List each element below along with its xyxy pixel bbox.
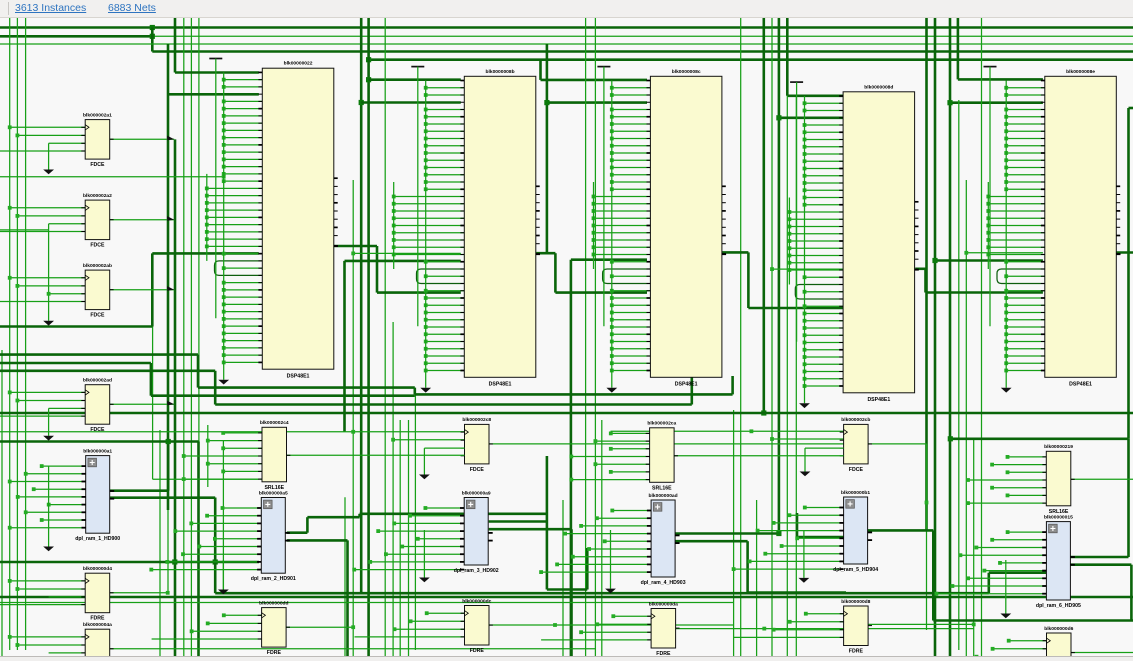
input wires xyxy=(10,580,86,582)
fan-in wires blk0000008d xyxy=(805,102,844,104)
right pin stubs xyxy=(536,185,540,187)
svg-text:blk000002ca: blk000002ca xyxy=(647,421,676,427)
vertical bus A xyxy=(611,81,613,388)
left pin stubs xyxy=(258,71,262,73)
pin stubs xyxy=(840,613,844,615)
pin stubs xyxy=(1042,531,1046,533)
wire net vertical xyxy=(786,96,788,656)
FDRE instance blk0000004a xyxy=(0,622,114,661)
input wires xyxy=(10,636,86,638)
input wires xyxy=(224,614,262,616)
DSP48E1 instance blk0000008d xyxy=(788,82,919,408)
dpl_ram instance blk000000ad (dpl_ram_4_HD903) xyxy=(539,493,686,586)
block body blk000002ad xyxy=(85,385,110,425)
input wires xyxy=(223,432,262,434)
wire bus segment xyxy=(933,619,1133,622)
svg-text:dpl_ram_6_HD905: dpl_ram_6_HD905 xyxy=(1036,603,1081,609)
junction xyxy=(770,437,774,441)
wire bus segment xyxy=(539,60,542,80)
clock marker xyxy=(85,275,89,280)
wire pcout cascade xyxy=(915,267,925,270)
input wires xyxy=(10,277,86,279)
svg-text:DSP48E1: DSP48E1 xyxy=(489,382,512,388)
wire bus segment xyxy=(0,440,199,443)
svg-text:blk000002cb: blk000002cb xyxy=(841,417,870,423)
output wire xyxy=(287,454,465,456)
wire net vertical xyxy=(414,389,416,651)
svg-text:blk000000d4: blk000000d4 xyxy=(83,566,112,572)
wire net vertical xyxy=(399,420,401,656)
vertical bus A xyxy=(1005,81,1007,388)
wire net vertical xyxy=(159,430,161,656)
wire net segment xyxy=(772,438,844,440)
wire bus segment xyxy=(415,393,733,396)
wire bus segment xyxy=(361,101,461,104)
wire bus segment xyxy=(198,386,415,389)
wire bus segment xyxy=(796,513,799,537)
hierarchy icon xyxy=(1049,524,1058,533)
pin stubs xyxy=(1042,456,1046,458)
block body blk0000008e xyxy=(1045,76,1117,377)
svg-text:blk000000a1: blk000000a1 xyxy=(83,448,112,454)
block body blk000000d4 xyxy=(85,573,110,613)
svg-text:blk000000a5: blk000000a5 xyxy=(259,490,288,496)
vertical bus B xyxy=(393,182,395,269)
wire pcout cascade xyxy=(722,251,748,254)
DSP48E1 instance blk00000022 xyxy=(205,59,338,385)
wire bus segment xyxy=(369,78,461,81)
block body blk0000004a xyxy=(85,629,110,661)
junction xyxy=(964,251,968,255)
block body blk000002c4 xyxy=(262,427,287,482)
FDCE instance blk000000d6 xyxy=(937,626,1075,661)
fan-in wires blk0000008b xyxy=(426,87,465,89)
wire net segment xyxy=(152,35,1133,37)
block body blk000000d6 xyxy=(1047,633,1072,661)
svg-text:SRL16E: SRL16E xyxy=(652,485,672,491)
svg-text:blk000000dc: blk000000dc xyxy=(462,598,491,604)
junction xyxy=(351,252,355,256)
junction xyxy=(150,25,155,30)
block body blk00000015 xyxy=(1046,522,1070,600)
vertical bus B xyxy=(788,198,790,285)
wire pcout cascade xyxy=(1117,251,1133,254)
svg-text:FDCE: FDCE xyxy=(90,313,105,319)
svg-text:blk000000a9: blk000000a9 xyxy=(462,490,491,496)
tie-off T xyxy=(209,58,222,60)
wire net vertical xyxy=(795,95,797,656)
left pin stubs xyxy=(647,80,651,82)
wire net segment xyxy=(675,628,974,630)
wire net vertical xyxy=(167,510,169,593)
output wire xyxy=(1071,478,1133,480)
block body blk00000219 xyxy=(1046,451,1071,506)
wire net vertical xyxy=(16,18,18,650)
FDCE instance blk000002ad xyxy=(0,378,174,441)
input wires xyxy=(806,613,844,615)
wire bus vertical xyxy=(934,18,937,656)
input wires xyxy=(1008,531,1047,533)
wire net vertical xyxy=(392,322,394,656)
wire bus segment xyxy=(215,403,692,406)
clock marker xyxy=(85,205,89,210)
svg-text:FDRE: FDRE xyxy=(90,616,105,622)
svg-text:blk000000da: blk000000da xyxy=(649,601,678,607)
junction xyxy=(351,625,355,629)
wire net vertical xyxy=(601,420,603,656)
dpl_ram instance blk00000015 (dpl_ram_6_HD905) xyxy=(935,514,1082,609)
svg-text:SRL16E: SRL16E xyxy=(1049,509,1069,515)
wire bus segment xyxy=(987,573,990,594)
wire net segment xyxy=(867,623,974,625)
output wire xyxy=(110,138,175,140)
wire net vertical xyxy=(408,420,410,656)
input wires xyxy=(805,507,844,509)
left pin stubs xyxy=(1041,80,1045,82)
wire net vertical xyxy=(733,410,735,656)
wire bus segment xyxy=(152,50,1133,53)
svg-text:FDCE: FDCE xyxy=(849,467,864,473)
svg-text:FDRE: FDRE xyxy=(470,648,485,654)
wire net vertical xyxy=(207,425,209,487)
tie-off T xyxy=(411,66,424,68)
wire bus vertical xyxy=(762,18,765,413)
input wires xyxy=(611,432,650,434)
input wires xyxy=(1008,456,1047,458)
wire bus segment xyxy=(1069,563,1131,566)
junction xyxy=(213,559,218,564)
wire bus vertical xyxy=(367,18,370,656)
wire net segment xyxy=(772,268,845,270)
input wires xyxy=(1009,640,1047,642)
dpl_ram instance blk000000a9 (dpl_ram_3_HD902) xyxy=(352,490,499,574)
svg-text:FDCE: FDCE xyxy=(90,243,105,249)
fan-in wires blk00000022 xyxy=(224,79,263,81)
hierarchy icon xyxy=(466,500,475,509)
clock marker xyxy=(85,634,89,639)
svg-text:dpl_ram_5_HD904: dpl_ram_5_HD904 xyxy=(833,567,878,573)
wire net vertical xyxy=(198,18,200,656)
pin stubs xyxy=(81,126,85,128)
clock marker xyxy=(1047,638,1051,643)
wire bus segment xyxy=(369,58,1133,61)
pin stubs xyxy=(81,277,85,279)
wire bus segment xyxy=(779,117,845,120)
svg-text:blk000002ab: blk000002ab xyxy=(83,263,112,269)
junction xyxy=(351,430,355,434)
FDRE instance blk000000dd xyxy=(152,600,290,656)
wire pcout cascade xyxy=(334,245,377,248)
right pin stubs xyxy=(722,185,726,187)
wire bus segment xyxy=(786,18,789,96)
svg-text:blk0000008c: blk0000008c xyxy=(672,69,701,75)
ground arrow xyxy=(1001,388,1012,393)
block body blk000000da xyxy=(651,609,676,649)
DSP48E1 instance blk0000008c xyxy=(592,67,727,393)
wire net segment xyxy=(0,229,49,231)
hierarchy icon xyxy=(846,500,855,509)
wire pcout cascade xyxy=(536,252,555,255)
wire net vertical xyxy=(384,18,386,656)
wire net vertical xyxy=(965,180,967,656)
wire net segment xyxy=(0,431,465,433)
wire net segment xyxy=(110,592,168,594)
SRL16E instance blk000002c4 xyxy=(182,420,465,491)
ground arrow xyxy=(610,530,612,589)
block body blk000002a2 xyxy=(85,200,110,240)
block body blk000000a1 xyxy=(86,456,110,534)
left pin stubs xyxy=(460,80,464,82)
svg-text:FDCE: FDCE xyxy=(90,162,105,168)
wire net segment xyxy=(0,176,224,178)
block body blk000002ca xyxy=(650,428,675,483)
junction xyxy=(366,57,371,62)
wire bus segment xyxy=(0,35,152,38)
svg-text:blk000002ad: blk000002ad xyxy=(83,378,112,384)
wire net segment xyxy=(966,252,1043,254)
clock marker xyxy=(651,614,655,619)
wire net vertical xyxy=(352,180,354,656)
junction xyxy=(391,438,395,442)
block body blk000002cb xyxy=(844,424,869,464)
svg-text:blk000000d8: blk000000d8 xyxy=(841,599,870,605)
tie-off T xyxy=(597,66,610,68)
right pin stubs xyxy=(334,177,338,179)
svg-text:FDCE: FDCE xyxy=(90,427,105,433)
wire net vertical xyxy=(594,18,596,656)
wire net segment xyxy=(0,602,734,604)
junction xyxy=(359,100,364,105)
wire bus segment xyxy=(110,489,168,492)
clock marker xyxy=(844,611,848,616)
wire net segment xyxy=(611,430,844,432)
wire net vertical xyxy=(926,444,928,630)
junction xyxy=(770,267,774,271)
wire net vertical xyxy=(981,18,983,656)
svg-text:blk0000008b: blk0000008b xyxy=(486,69,515,75)
wire bus segment xyxy=(0,561,259,564)
wire bus segment xyxy=(546,44,549,253)
junction xyxy=(932,258,937,263)
wire bus segment xyxy=(675,532,779,535)
wire bus segment xyxy=(174,18,177,73)
scrollbar strip xyxy=(0,656,1133,661)
wire net segment xyxy=(393,439,465,441)
wire net vertical xyxy=(344,497,346,656)
clock marker xyxy=(262,613,266,618)
vertical bus A xyxy=(223,72,225,379)
wire bus vertical xyxy=(949,18,952,656)
wire net segment xyxy=(489,624,734,626)
svg-text:blk000000b1: blk000000b1 xyxy=(841,490,870,496)
svg-text:blk0000004a: blk0000004a xyxy=(83,622,112,628)
wire bus segment xyxy=(151,28,154,52)
hierarchy icon xyxy=(88,458,97,467)
wire net segment xyxy=(0,43,1133,45)
hierarchy icon xyxy=(264,500,273,509)
wire bus vertical xyxy=(214,562,217,593)
dpl_ram instance blk000000a5 (dpl_ram_2_HD901) xyxy=(149,490,296,582)
output wire xyxy=(110,219,175,221)
pin stubs xyxy=(646,432,650,434)
svg-text:blk000000dd: blk000000dd xyxy=(259,600,288,606)
input wires xyxy=(223,507,262,509)
wire net vertical xyxy=(562,500,564,656)
pin stubs xyxy=(461,612,465,614)
pin stubs xyxy=(460,507,464,509)
svg-text:blk00000219: blk00000219 xyxy=(1044,444,1073,450)
svg-text:blk000000ad: blk000000ad xyxy=(649,493,678,499)
ground arrow xyxy=(420,388,431,393)
wire bus segment xyxy=(0,596,1133,599)
wire bus vertical xyxy=(174,139,177,656)
wire bus segment xyxy=(489,528,572,531)
ground arrow xyxy=(222,560,224,590)
wire bus vertical xyxy=(214,498,217,563)
svg-text:DSP48E1: DSP48E1 xyxy=(287,373,310,379)
svg-text:dpl_ram_1_HD900: dpl_ram_1_HD900 xyxy=(75,536,120,542)
svg-text:FDRE: FDRE xyxy=(849,649,864,655)
wire net segment xyxy=(287,626,354,628)
input wires xyxy=(425,507,464,509)
pin stubs xyxy=(81,391,85,393)
wire net vertical xyxy=(771,18,773,656)
block body blk000000dd xyxy=(262,608,287,648)
junction xyxy=(972,623,976,627)
input wires xyxy=(10,207,86,209)
vertical bus A xyxy=(804,96,806,403)
wire bus segment xyxy=(547,101,647,104)
svg-text:dpl_ram_2_HD901: dpl_ram_2_HD901 xyxy=(251,576,296,582)
clock marker xyxy=(85,125,89,130)
FDRE instance blk000000dc xyxy=(355,598,493,654)
SRL16E instance blk000002ca xyxy=(569,421,843,492)
wire bus vertical xyxy=(925,18,928,530)
wire net vertical xyxy=(25,18,27,650)
pin stubs xyxy=(1043,640,1047,642)
wire net vertical xyxy=(222,440,224,590)
ground arrow xyxy=(1005,560,1007,614)
svg-text:blk000002a1: blk000002a1 xyxy=(83,112,112,118)
wire net vertical xyxy=(1,350,3,656)
wire bus vertical xyxy=(197,442,200,657)
junction xyxy=(925,501,929,505)
wire net vertical xyxy=(190,18,192,656)
wire net segment xyxy=(489,443,844,445)
svg-text:blk00000022: blk00000022 xyxy=(284,61,313,67)
wire bus segment xyxy=(957,18,960,79)
pin stubs xyxy=(461,431,465,433)
junction xyxy=(948,436,953,441)
wire net vertical xyxy=(756,500,758,656)
wire bus segment xyxy=(867,529,933,532)
pin stubs xyxy=(82,465,86,467)
ground arrow xyxy=(799,403,810,408)
wire net vertical xyxy=(958,100,960,650)
wire net vertical xyxy=(9,18,11,650)
input wires xyxy=(612,510,651,512)
svg-text:blk00000015: blk00000015 xyxy=(1044,514,1073,520)
wire bus segment xyxy=(489,520,547,523)
SRL16E instance blk00000219 xyxy=(966,444,1133,515)
svg-text:SRL16E: SRL16E xyxy=(264,485,284,491)
svg-text:blk000000d6: blk000000d6 xyxy=(1044,626,1073,632)
wire bus segment xyxy=(175,71,259,74)
ground arrow xyxy=(218,380,229,385)
block body blk000000b1 xyxy=(844,497,868,564)
right pin stubs xyxy=(915,201,919,203)
wire net segment xyxy=(110,648,595,650)
pin stubs xyxy=(81,580,85,582)
wire net vertical xyxy=(152,300,154,479)
wire bus vertical xyxy=(167,442,170,491)
block body blk000000ad xyxy=(651,500,675,577)
wire bus segment xyxy=(151,394,415,397)
output wire xyxy=(110,289,175,291)
input wires xyxy=(427,612,465,614)
ground arrow xyxy=(48,466,50,547)
block body blk0000008d xyxy=(843,92,915,393)
vertical bus B xyxy=(593,182,595,269)
block body blk000002ab xyxy=(85,270,110,310)
FDRE instance blk000000d4 xyxy=(0,566,114,622)
tie-off T xyxy=(790,81,803,83)
FDRE instance blk000000da xyxy=(541,601,679,657)
pin stubs xyxy=(81,636,85,638)
wire net segment xyxy=(153,478,259,480)
wire bus segment xyxy=(547,588,587,591)
FDCE instance blk000002a2 xyxy=(0,193,174,326)
junction xyxy=(761,410,766,415)
junction xyxy=(366,77,371,82)
wire net vertical xyxy=(183,18,185,656)
hierarchy icon xyxy=(653,503,662,512)
block body blk00000022 xyxy=(262,68,334,369)
output wire xyxy=(867,443,870,445)
wire net vertical xyxy=(973,440,975,656)
wire bus segment xyxy=(935,259,1043,262)
dpl_ram instance blk000000a1 (dpl_ram_1_HD900) xyxy=(8,448,121,542)
pin stubs xyxy=(258,432,262,434)
output wire xyxy=(110,403,175,405)
block body blk000000a5 xyxy=(261,498,285,574)
pin stubs xyxy=(257,507,261,509)
wire bus segment xyxy=(1069,556,1128,559)
block body blk000000a9 xyxy=(464,498,488,566)
wire bus vertical xyxy=(360,18,363,593)
ground arrow xyxy=(423,530,425,578)
tie-off T xyxy=(984,66,997,68)
svg-text:DSP48E1: DSP48E1 xyxy=(675,382,698,388)
block body blk0000008c xyxy=(650,76,722,377)
DSP48E1 instance blk0000008e xyxy=(984,67,1121,393)
junction xyxy=(172,559,177,564)
svg-text:blk000002c8: blk000002c8 xyxy=(462,417,491,423)
clock marker xyxy=(844,430,848,435)
DSP48E1 instance blk0000008b xyxy=(392,67,540,393)
junction xyxy=(776,115,781,120)
wire bus segment xyxy=(345,260,461,263)
svg-text:DSP48E1: DSP48E1 xyxy=(1069,382,1092,388)
wire net vertical xyxy=(740,18,742,656)
fan-in wires blk0000008c xyxy=(612,87,651,89)
pin stubs xyxy=(647,510,651,512)
wire bus segment xyxy=(0,353,198,356)
wire net segment xyxy=(1069,652,1133,654)
wire bus segment xyxy=(675,540,747,543)
wire bus segment xyxy=(950,437,1128,440)
wire net vertical xyxy=(585,18,587,656)
